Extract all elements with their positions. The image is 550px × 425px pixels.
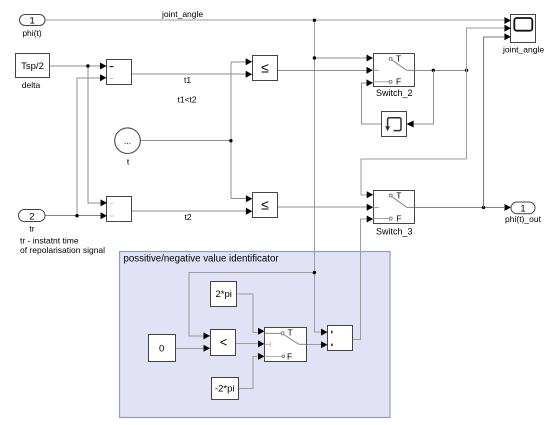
wire branch into identificator to less-than xyxy=(189,273,314,336)
svg-text:1: 1 xyxy=(30,16,35,27)
svg-text:of repolarisation signal: of repolarisation signal xyxy=(20,245,105,255)
constant 0 xyxy=(149,335,176,362)
node junction out xyxy=(482,206,485,209)
node junction memory branch xyxy=(432,69,435,72)
constant -2*pi xyxy=(212,378,239,400)
node junction scope branch xyxy=(465,69,468,72)
switch identificator xyxy=(258,328,307,362)
svg-text:delta: delta xyxy=(22,80,41,90)
wire less-than to switch control xyxy=(236,343,257,345)
svg-text:joint_angle: joint_angle xyxy=(502,45,544,55)
wire tr to sum2 xyxy=(45,215,101,217)
node junction t xyxy=(229,139,232,142)
svg-text:T: T xyxy=(396,190,401,200)
wire Tsp/2 to sum1 xyxy=(50,65,100,67)
svg-text:F: F xyxy=(396,77,401,87)
switch Switch_2 xyxy=(367,54,416,99)
node junction phi trunk top xyxy=(313,19,316,22)
relational less-than xyxy=(204,330,236,356)
svg-text:t1: t1 xyxy=(184,75,191,85)
svg-text:tr - instatnt time: tr - instatnt time xyxy=(20,236,79,246)
wire phi(t) vertical trunk xyxy=(314,20,321,332)
sum2 subtract xyxy=(101,197,132,222)
sum1 subtract xyxy=(100,60,132,85)
svg-text:joint_angle: joint_angle xyxy=(161,9,203,19)
wire branch to Switch_2 T xyxy=(314,57,367,59)
relational le1 xyxy=(246,56,278,81)
svg-text:t1<t2: t1<t2 xyxy=(178,95,197,105)
wire Switch_3 output to phi(t)_out xyxy=(415,206,505,208)
svg-text:possitive/negative value ident: possitive/negative value identificator xyxy=(124,253,280,264)
wire Switch_2 output xyxy=(415,69,467,71)
svg-text:≤: ≤ xyxy=(261,197,269,213)
svg-text:...: ... xyxy=(124,136,131,146)
node junction tr xyxy=(75,214,78,217)
wire Switch_2 out down to Switch_3 T xyxy=(361,159,467,195)
wire joint_angle from phi(t) to scope xyxy=(45,19,504,21)
inport phi(t) xyxy=(20,15,46,39)
wire Switch_2 out up to scope in2 xyxy=(467,28,504,159)
scope joint_angle xyxy=(502,15,544,55)
switch Switch_3 xyxy=(367,190,415,236)
wire le2 to Switch_3 control xyxy=(278,206,368,208)
memory block xyxy=(382,112,414,137)
wire t to le1 xyxy=(231,61,246,63)
wire 2*pi to switch T xyxy=(238,294,258,333)
sum identificator output xyxy=(321,326,353,351)
svg-text:Tsp/2: Tsp/2 xyxy=(21,61,44,72)
svg-text:phi(t): phi(t) xyxy=(22,28,42,38)
constant 2*pi xyxy=(211,282,237,307)
outport phi(t)_out xyxy=(505,202,542,224)
svg-text:2: 2 xyxy=(29,211,34,222)
wire sum block to Switch_3 F xyxy=(353,219,367,340)
svg-text:1: 1 xyxy=(520,203,525,214)
wire t2 sum2 to le2 xyxy=(132,210,246,212)
svg-text:<: < xyxy=(220,335,228,350)
svg-text:t2: t2 xyxy=(185,212,192,222)
svg-text:Switch_2: Switch_2 xyxy=(376,88,413,98)
wire switch to sum block xyxy=(307,344,322,346)
svg-text:2*pi: 2*pi xyxy=(216,289,232,300)
wire t circle trunk xyxy=(140,140,231,142)
relational le2 xyxy=(246,193,278,218)
svg-text:phi(t)_out: phi(t)_out xyxy=(505,214,542,224)
wire t to le2 xyxy=(231,198,246,200)
svg-text:T: T xyxy=(288,328,293,338)
svg-text:tr: tr xyxy=(29,224,34,234)
svg-text:0: 0 xyxy=(159,344,164,355)
svg-text:T: T xyxy=(396,54,401,64)
node junction identificator xyxy=(313,271,316,274)
constant Tsp/2 delta xyxy=(16,54,50,91)
wire t1 sum1 to le1 xyxy=(132,73,246,75)
wire -2*pi to switch F xyxy=(239,356,258,388)
wire to memory input xyxy=(414,70,434,124)
wire Tsp/2 branch to sum2 xyxy=(88,66,101,203)
wire 0 to less-than xyxy=(176,347,204,349)
subsystem box identificator xyxy=(120,252,391,418)
wire le1 to Switch_2 control xyxy=(278,69,367,71)
svg-text:-2*pi: -2*pi xyxy=(215,384,235,395)
svg-text:F: F xyxy=(287,352,292,362)
node junction switch2 T xyxy=(313,56,316,59)
clock t xyxy=(115,128,141,167)
wire tr branch to sum1 xyxy=(77,78,100,216)
svg-text:F: F xyxy=(396,213,401,223)
wire memory output to Switch_2 F xyxy=(362,83,382,124)
svg-text:≤: ≤ xyxy=(261,60,269,76)
svg-text:Switch_3: Switch_3 xyxy=(376,227,413,237)
wire t vertical xyxy=(230,62,232,199)
node junction Tsp/2 xyxy=(86,64,89,67)
inport tr xyxy=(19,210,106,256)
wire out branch up to scope in3 xyxy=(484,37,504,208)
